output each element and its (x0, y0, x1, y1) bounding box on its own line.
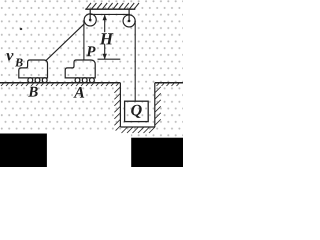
label Q (131, 105, 142, 118)
dimension H line (103, 15, 107, 60)
cart A wheels (75, 78, 94, 83)
rope from right pulley down to weight Q (134, 21, 136, 101)
ground line left of pit (0, 82, 120, 84)
black redaction box right (131, 138, 183, 167)
cart B body (19, 60, 48, 78)
label A (cart A) (73, 87, 84, 98)
pit right wall hatching (155, 87, 161, 126)
right pulley bracket (128, 9, 130, 21)
label P (86, 46, 95, 56)
label v (of v_B) (6, 53, 13, 61)
label H (100, 33, 114, 44)
platform reference line (98, 58, 121, 60)
ceiling hatching (86, 3, 139, 9)
weight Q box (125, 101, 149, 121)
white patch behind H (100, 32, 112, 44)
label B (cart B) (28, 87, 38, 97)
right pulley (123, 15, 135, 27)
pit right wall (154, 83, 156, 127)
ceiling line (85, 8, 135, 10)
pit left wall (119, 83, 121, 127)
black redaction box left (0, 134, 47, 168)
rope over pulleys (horizontal) (90, 13, 130, 15)
label B subscript of v_B (15, 59, 23, 67)
pit left wall hatching (114, 87, 120, 131)
pit bottom (120, 126, 154, 128)
cart A body (65, 60, 95, 78)
cart B wheels (28, 78, 47, 83)
pit bottom hatching (122, 127, 156, 133)
ground line right of pit (155, 82, 183, 84)
rope from cart B up to left pulley (46, 24, 84, 61)
stray ink mark (20, 28, 23, 30)
ground hatch ticks (1, 84, 179, 86)
rope from left pulley down to cart A (83, 20, 85, 60)
dotted grid patch right (131, 134, 183, 138)
dotted grid background (0, 0, 183, 134)
left pulley (84, 14, 96, 26)
left pulley bracket (89, 9, 91, 20)
